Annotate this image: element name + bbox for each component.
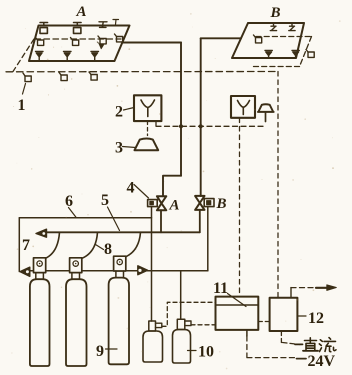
dashed signal line from box 2 (156, 121, 266, 126)
junction dot on riser A (179, 124, 183, 128)
svg-text:4: 4 (127, 180, 135, 197)
selector valve A: bowtie (157, 196, 166, 210)
pipe from zone B to riser (201, 37, 241, 39)
alarm box 2 (hydraulic alarm gong) (134, 95, 161, 121)
dashed pilot control line from pilot cylinder 1 to panel 11 (162, 302, 216, 326)
detector D9 on right dashed edge of B (306, 50, 314, 58)
collector left arrowhead (20, 267, 30, 276)
connection arc from cylinder 2 (81, 232, 97, 258)
selector valve B: bowtie (195, 196, 204, 210)
detector D5 below boundary line (23, 73, 31, 82)
dashed line from panel 11 bottom to 24V (246, 330, 248, 336)
cylinder 1 neck (36, 273, 44, 280)
dashed line from zone boundary down to power box 12 (277, 72, 279, 298)
pilot cylinder 1 side port (156, 323, 162, 327)
label 4 leader (134, 185, 149, 199)
label 12 leader (298, 315, 307, 317)
dashed output line to the right (291, 287, 316, 289)
cylinder 2 head valve (70, 258, 82, 273)
drop pipe to pilot cylinder 1 (151, 271, 153, 321)
svg-text:2: 2 (115, 104, 123, 121)
dashed line from box 12 bottom to DC label (281, 331, 300, 345)
collector line along cylinder heads (27, 270, 208, 272)
Y symbol inside box 2b (238, 101, 250, 115)
panel 11 inner line (216, 304, 259, 306)
label 10 leader (188, 350, 197, 352)
detector D1 on dashed line (36, 38, 44, 46)
control panel box 11 (216, 297, 259, 330)
svg-text:10: 10 (198, 344, 214, 361)
dashed pilot control line from pilot cylinder 2 to panel 11 (191, 324, 216, 326)
dashed stem from box 2 to bell 3 (147, 121, 149, 136)
dashed ceiling line of zone A (35, 38, 121, 40)
svg-text:12: 12 (308, 310, 324, 327)
cylinder 2 neck (72, 273, 80, 280)
dashed left edge of zone A outer boundary (13, 39, 34, 72)
alarm bell 3b (258, 104, 274, 112)
svg-text:11: 11 (213, 280, 228, 297)
pilot cylinder 2 body (173, 330, 191, 364)
svg-text:24V: 24V (308, 353, 336, 370)
label 5 leader (108, 207, 120, 231)
frame left vertical (18, 218, 20, 272)
stem of bell 3b (265, 112, 267, 122)
valve B outlet stem (199, 210, 201, 233)
dashed control line from box 2b down to control panel 11 (239, 118, 241, 296)
label 9 leader (106, 348, 118, 350)
pendent sprinkler P1 on bottom edge of A (36, 52, 44, 62)
cylinder 3 neck (116, 271, 124, 278)
detector D3 on dashed line (98, 36, 106, 44)
selector valve B: actuator box (204, 199, 214, 207)
alarm box 2b (zone B gong) (231, 96, 255, 118)
pilot cylinder 2 neck (177, 319, 185, 329)
long dashed zone boundary line (6, 71, 278, 73)
label 8 leader (96, 245, 104, 250)
Y symbol inside box 2 (141, 100, 155, 117)
alarm bell 3 (135, 139, 159, 151)
svg-text:1: 1 (18, 97, 26, 114)
svg-text:A: A (76, 4, 87, 20)
riser pipe A (vertical) (180, 43, 182, 176)
label 2 leader (124, 108, 135, 111)
cylinder 3 head valve (114, 256, 126, 271)
label DC (直流) drawn glyphs (295, 338, 336, 352)
cylinder 1 body (30, 279, 50, 366)
svg-text:B: B (270, 5, 281, 21)
pilot cylinder 2 side port (185, 321, 191, 326)
pilot cylinder 1 neck (149, 321, 156, 331)
nozzle B1 (double-bar) (270, 24, 276, 31)
pendent sprinkler P5 in zone B (292, 51, 299, 59)
small arrow mark inside zone A (97, 42, 100, 45)
collector right arrowhead (138, 266, 148, 275)
riser pipe B (vertical) (200, 38, 202, 196)
zone B parallelogram (protected room B) (232, 23, 304, 58)
detector D6 below boundary line (59, 72, 67, 80)
detector D8 in zone B (254, 35, 262, 43)
connection arc from cylinder 3 (125, 232, 140, 257)
sprinkler nozzle A2 (upright, on top edge) (74, 23, 82, 34)
sprinkler nozzle A3 (double-bar, on top edge) (99, 22, 107, 28)
svg-text:A: A (169, 198, 180, 214)
cylinder 1 head valve (34, 258, 46, 273)
label 6 leader (69, 208, 77, 218)
pipe from zone A to riser (123, 42, 181, 44)
label 3 leader (123, 147, 136, 148)
pendent sprinkler P2 on bottom edge of A (64, 52, 72, 62)
zone A parallelogram (protected room A) (29, 26, 130, 62)
pendent sprinkler P4 in zone B (265, 51, 272, 59)
jog to valve A (163, 176, 181, 197)
cylinder 3 body (109, 278, 129, 365)
label 1 leader (23, 84, 26, 95)
connection arc from cylinder 1 (45, 232, 60, 258)
detector D7 below boundary line (89, 72, 97, 80)
frame top line (pipe 6) (19, 217, 151, 219)
drop pipe to pilot cylinder 2 (180, 271, 182, 320)
dashed link between panel 11 and box 12 (258, 321, 269, 323)
svg-text:5: 5 (101, 192, 109, 209)
selector valve B: actuator dot (207, 201, 211, 205)
pilot cylinder 1 body (143, 331, 163, 362)
valve A outlet stem (160, 210, 162, 232)
pilot line from valve A actuator down (151, 207, 153, 271)
manifold left arrowhead (36, 229, 47, 237)
selector valve A: actuator dot (150, 201, 154, 204)
svg-text:7: 7 (22, 237, 30, 254)
svg-text:8: 8 (104, 241, 112, 258)
svg-text:B: B (216, 196, 227, 212)
selector valve A: actuator box (148, 200, 158, 207)
detector D4 at right end of dashed line (115, 34, 123, 42)
junction dot on riser B (199, 124, 203, 128)
sprinkler nozzle A4 (small tee, top right) (113, 20, 119, 25)
output arrow (316, 287, 328, 289)
power box 12 (270, 298, 298, 331)
detector D2 on dashed line (71, 38, 79, 46)
cylinder 2 body (66, 279, 87, 366)
label 11 leader (228, 294, 247, 307)
svg-text:3: 3 (115, 140, 123, 157)
sprinkler nozzle A1 (upright, on top edge) (40, 23, 48, 34)
svg-text:9: 9 (96, 343, 104, 360)
dashed ceiling outline of zone B (251, 37, 312, 67)
pendent sprinkler P3 on bottom edge of A (91, 52, 99, 62)
pilot line from valve B actuator down (207, 207, 209, 271)
nozzle B2 (double-bar) (289, 24, 295, 31)
stub from box 12 top (290, 288, 292, 298)
distribution manifold (pipe with arrow 7) (46, 231, 200, 233)
